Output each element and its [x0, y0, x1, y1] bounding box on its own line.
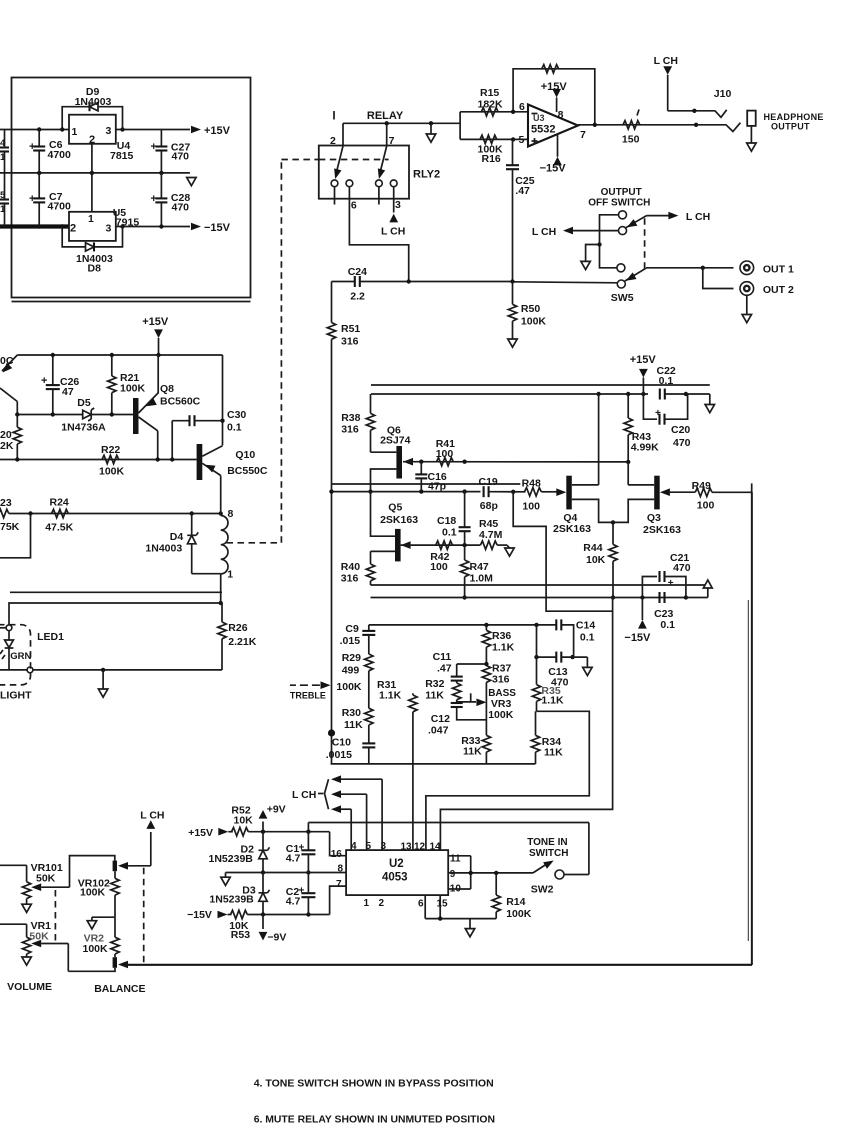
svg-text:C14: C14: [576, 620, 595, 632]
label opamp pin 6: [519, 101, 525, 113]
svg-text:100: 100: [697, 500, 715, 512]
wire +15V rail 2: [17, 353, 222, 357]
resistor R37 316: [482, 662, 511, 697]
capacitor C25 .47: [506, 139, 535, 281]
resistor R40 316: [341, 551, 395, 585]
ground SW5: [581, 242, 602, 269]
svg-text:13: 13: [401, 842, 413, 853]
svg-text:316: 316: [341, 336, 359, 348]
label Q4: [553, 512, 591, 535]
power +15V arrow: [191, 125, 231, 137]
svg-text:0.1: 0.1: [227, 422, 242, 434]
svg-text:+: +: [655, 408, 661, 419]
ground VR102: [87, 917, 115, 929]
wire SW5 bracket: [600, 215, 619, 268]
label Q6: [380, 425, 411, 447]
relay contact 4: [390, 180, 397, 187]
wire R23 branch down: [0, 514, 31, 558]
svg-text:11K: 11K: [544, 747, 563, 759]
label BALANCE: [94, 983, 145, 995]
wire tone input jog: [513, 492, 612, 611]
label OUT 1: [763, 264, 794, 276]
wire -15V rail thick segment: [0, 224, 92, 228]
label J10: [714, 88, 732, 100]
wire pin7 feed: [330, 886, 347, 914]
capacitor C26 47: [41, 355, 79, 415]
wire opamp output: [578, 123, 698, 127]
wire relay contact3 stub: [378, 187, 380, 205]
diode D8 1N4003 loop wire: [62, 227, 122, 247]
resistor R16 100K: [478, 135, 504, 165]
wire rail D: [371, 595, 708, 599]
transistor Q8 emitter: [139, 393, 159, 413]
label U2 bottom pins: [364, 898, 449, 910]
wire right tall riser: [751, 483, 753, 965]
svg-text:SW5: SW5: [611, 292, 634, 304]
svg-text:D8: D8: [88, 263, 102, 275]
wire LED bottom rail: [0, 668, 222, 672]
wire C11 branch top: [457, 663, 487, 665]
svg-text:BALANCE: BALANCE: [94, 983, 145, 995]
resistor R44 10K: [583, 522, 617, 599]
regulator U4 7815: [69, 115, 134, 162]
resistor R50 100K: [508, 282, 546, 340]
capacitor C27 470: [151, 130, 191, 173]
resistor R47 1.0M: [460, 545, 493, 600]
label OUTPUT OFF SWITCH: [588, 187, 650, 209]
svg-text:Q5: Q5: [388, 502, 402, 514]
wire Q6 drain to Q5 drain: [368, 469, 396, 536]
node L CH right arrow: [668, 211, 710, 223]
svg-text:0.1: 0.1: [659, 375, 674, 387]
resistor R34 11K: [531, 711, 563, 764]
capacitor C11 .47: [433, 651, 463, 681]
resistor R33 11K: [461, 735, 490, 764]
label TONE IN SWITCH: [527, 837, 568, 859]
label opamp plus: [532, 138, 538, 144]
svg-text:L CH: L CH: [686, 211, 710, 223]
wire horizontal line lower: [9, 603, 221, 625]
wire feedback loop: [511, 69, 595, 125]
wire right faint vertical: [747, 600, 749, 941]
resistor R51 316: [327, 282, 360, 764]
svg-text:Q10: Q10: [235, 449, 255, 461]
svg-text:1: 1: [72, 126, 78, 138]
svg-text:5: 5: [0, 190, 6, 201]
label relay pin 6: [351, 200, 357, 212]
switch SW5 contact A: [619, 211, 627, 219]
label Q10: [227, 449, 268, 477]
resistor R24 47.5K: [45, 497, 73, 534]
label Q3: [643, 512, 681, 536]
capacitor C21 470: [642, 552, 690, 598]
transistor Q4 gate arrow: [556, 488, 566, 496]
resistor R36 1.1K: [482, 625, 514, 664]
svg-text:R29: R29: [342, 652, 361, 664]
svg-text:SWITCH: SWITCH: [529, 848, 568, 859]
svg-text:D4: D4: [170, 531, 184, 543]
label U3: [533, 113, 545, 123]
svg-text:Q3: Q3: [647, 512, 661, 524]
svg-text:.047: .047: [428, 725, 449, 737]
svg-text:LED1: LED1: [37, 631, 64, 643]
svg-text:SW2: SW2: [531, 884, 554, 896]
power -9V arrow: [259, 915, 287, 944]
dashed gang volume: [54, 890, 56, 942]
svg-text:R36: R36: [492, 630, 511, 642]
svg-text:Q8: Q8: [160, 383, 174, 395]
svg-text:R47: R47: [470, 561, 489, 573]
svg-text:L CH: L CH: [140, 810, 164, 822]
wire SW2 to riser: [564, 823, 589, 875]
wire U2 pin10: [448, 888, 471, 890]
wire relay top: [343, 121, 460, 125]
wire -15V rail: [0, 224, 190, 228]
node LED anode connector: [6, 625, 12, 631]
transistor Q10 collector: [202, 446, 222, 457]
label SW2: [531, 884, 554, 896]
capacitor C9 .015: [340, 623, 376, 654]
svg-text:4. TONE SWITCH SHOWN IN B: 4. TONE SWITCH SHOWN IN BYPASS POSITION: [254, 1078, 494, 1090]
svg-text:R44: R44: [583, 542, 602, 554]
power supply enclosure frame: [12, 78, 251, 302]
svg-text:316: 316: [341, 573, 359, 585]
wire R35 branch vertical: [536, 625, 538, 685]
svg-text:1N4736A: 1N4736A: [61, 422, 106, 434]
resistor R21 100K: [108, 355, 146, 415]
svg-text:8: 8: [338, 864, 344, 875]
potentiometer VR2 100K: [83, 917, 120, 957]
svg-text:TONE IN: TONE IN: [527, 837, 567, 848]
svg-text:OUTPUT: OUTPUT: [601, 187, 642, 198]
wire tone top rail: [369, 623, 557, 627]
resistor R23 475K (cut off): [0, 497, 20, 533]
ground R50: [508, 339, 517, 347]
svg-text:1: 1: [227, 569, 233, 581]
svg-text:15: 15: [437, 899, 449, 910]
label C4: [0, 138, 6, 163]
wire opamp pin5 input: [460, 137, 528, 141]
switch SW5 arm upper: [625, 216, 669, 231]
op-amp U3 5532 triangle: [528, 105, 578, 147]
wire R48 to Q4 gate: [541, 491, 556, 493]
label GRN: [10, 651, 31, 662]
svg-text:2: 2: [70, 223, 76, 235]
svg-text:5: 5: [366, 841, 372, 852]
resistor R31 1.1K: [377, 679, 417, 850]
svg-text:9: 9: [450, 869, 456, 880]
svg-text:3: 3: [381, 841, 387, 852]
svg-text:C20: C20: [671, 424, 690, 436]
svg-text:+: +: [29, 193, 35, 205]
svg-text:2.2: 2.2: [350, 291, 365, 303]
power fet -15V: [624, 598, 651, 645]
resistor R38 316: [341, 394, 375, 452]
resistor feedback: [542, 65, 559, 73]
wire VR2 bottom track: [68, 968, 115, 972]
wire rail C: [371, 584, 707, 586]
svg-text:12: 12: [414, 842, 426, 853]
svg-text:8: 8: [558, 109, 564, 121]
node L CH relay input: [381, 214, 405, 238]
zener D3 1N5239B: [259, 873, 270, 915]
wire +15V feed vertical: [158, 338, 160, 355]
svg-text:499: 499: [342, 665, 360, 677]
wire 0V rail: [0, 171, 190, 175]
svg-text:R48: R48: [522, 478, 541, 490]
svg-text:C24: C24: [348, 266, 367, 278]
label opamp pin 8: [558, 109, 564, 121]
svg-text:23: 23: [0, 497, 12, 509]
switch SW2 contact: [555, 870, 564, 879]
pot VR102 slider top: [113, 861, 117, 872]
label U2 left pins: [331, 849, 344, 890]
svg-text:470: 470: [172, 202, 190, 214]
regulator U5 7915: [69, 207, 139, 241]
transistor Q6 2SJ74 bar: [396, 446, 402, 479]
label TREBLE: [290, 691, 326, 701]
transistor Q6 gate arrow: [403, 458, 413, 466]
svg-text:+15V: +15V: [630, 354, 657, 366]
label opamp pin 7: [580, 129, 586, 141]
pot VR2 slider bottom: [113, 957, 117, 968]
potentiometer VR1 50K: [22, 920, 51, 965]
svg-text:+9V: +9V: [267, 804, 286, 816]
svg-text:+15V: +15V: [188, 827, 213, 839]
svg-text:100K: 100K: [80, 887, 106, 899]
resistor R20 2K (cut off): [0, 415, 22, 460]
capacitor C1 4.7: [286, 832, 316, 873]
svg-text:6: 6: [418, 899, 424, 910]
svg-text:−15V: −15V: [187, 909, 212, 921]
capacitor C28 470: [151, 173, 191, 227]
svg-text:R40: R40: [341, 561, 360, 573]
wire tone bottom rail: [331, 763, 536, 765]
label D2: [209, 844, 255, 866]
svg-text:100K: 100K: [488, 709, 514, 721]
svg-text:2SK163: 2SK163: [643, 524, 681, 536]
capacitor C30 0.1: [172, 409, 246, 460]
svg-text:1: 1: [364, 898, 370, 909]
wire Q10 emitter to relay coil: [220, 476, 222, 514]
svg-text:4053: 4053: [382, 872, 408, 884]
svg-text:7815: 7815: [110, 150, 134, 162]
svg-text:0.1: 0.1: [660, 619, 675, 631]
wire +15V rail: [0, 127, 190, 131]
wire U2 bottom pins: [425, 895, 496, 921]
wire rail B to R48: [513, 491, 525, 493]
switch SW2 arm: [533, 857, 556, 873]
label D8: [76, 253, 113, 275]
wire L CH left arrow: [532, 226, 619, 238]
bass pot VR3 wiper: [457, 693, 487, 706]
svg-text:C10: C10: [332, 737, 351, 749]
resistor R32 11K: [425, 678, 461, 703]
ground LED rail: [98, 670, 107, 697]
wire VR101 input: [0, 864, 27, 866]
ground U2 bottom: [465, 919, 474, 937]
svg-text:4: 4: [351, 841, 357, 852]
wire Q3 drain lead: [628, 484, 654, 486]
ground OUT2: [742, 295, 751, 322]
resistor R26 2.21K: [218, 603, 257, 670]
resistor R35 1.1K: [532, 685, 564, 712]
resistor R14 100K: [492, 873, 532, 920]
wire D5 base rail: [15, 412, 133, 416]
svg-text:J10: J10: [714, 88, 732, 100]
wire U2 pin9 to SW2: [448, 871, 533, 875]
svg-text:OFF SWITCH: OFF SWITCH: [588, 198, 650, 209]
svg-text:2SK163: 2SK163: [553, 523, 591, 535]
node treble junction blob: [328, 729, 335, 736]
label opamp pin 5: [519, 134, 525, 146]
wire Q8 emitter to +15V: [157, 355, 159, 394]
treble pot 100K wiper: [290, 681, 362, 693]
label LED1: [37, 631, 64, 643]
diode D8 symbol: [86, 242, 95, 251]
label 5532: [531, 124, 555, 136]
svg-text:L CH: L CH: [292, 789, 316, 801]
relay contact 1: [331, 180, 338, 187]
svg-text:OUT 1: OUT 1: [763, 264, 794, 276]
wire relay contact1 stub: [334, 187, 336, 205]
svg-text:HEADPHONE: HEADPHONE: [764, 112, 824, 122]
svg-text:100K: 100K: [506, 908, 532, 920]
wiper VR1: [31, 940, 68, 972]
diode D4 1N4003: [187, 514, 221, 574]
svg-text:1.1K: 1.1K: [492, 642, 515, 654]
svg-text:TREBLE: TREBLE: [290, 691, 326, 701]
jack J10 ring contact: [696, 123, 740, 132]
svg-text:R50: R50: [521, 303, 540, 315]
svg-text:0.1: 0.1: [442, 527, 457, 539]
svg-text:14: 14: [430, 842, 442, 853]
power -15V arrow: [191, 222, 231, 234]
wire tone right edge: [440, 598, 612, 851]
svg-text:5532: 5532: [531, 124, 555, 136]
resistor R41 100: [436, 438, 455, 466]
power +9V arrow: [259, 804, 286, 832]
svg-text:4.7: 4.7: [286, 853, 301, 865]
svg-text:L CH: L CH: [532, 226, 556, 238]
ground mid rail: [221, 873, 230, 886]
svg-text:7: 7: [389, 135, 395, 147]
svg-text:100: 100: [436, 448, 454, 460]
wire R22 rail: [0, 457, 197, 461]
svg-text:11K: 11K: [425, 690, 444, 702]
svg-text:11K: 11K: [344, 719, 363, 731]
transistor Q4 2SK163 bar: [566, 476, 572, 510]
jack J10 body: [747, 111, 756, 126]
svg-text:R14: R14: [506, 896, 525, 908]
label RLY2: [413, 169, 440, 181]
capacitor C16 47p: [415, 462, 447, 493]
resistor R45 4.7M: [479, 518, 503, 549]
svg-text:R24: R24: [50, 497, 69, 509]
switch SW5 contact C: [617, 264, 625, 272]
svg-text:68p: 68p: [480, 500, 498, 512]
svg-text:R38: R38: [341, 412, 360, 424]
node LED cathode connector: [27, 667, 33, 673]
resistor R49 100: [692, 480, 715, 512]
dashed SW5 link: [644, 218, 646, 269]
zener D2 1N5239B: [259, 832, 270, 873]
power -15V feed U2: [187, 909, 227, 921]
svg-text:4.99K: 4.99K: [631, 442, 659, 454]
svg-text:OUTPUT: OUTPUT: [771, 122, 810, 132]
svg-text:6. MUTE RELAY SHOWN IN UN: 6. MUTE RELAY SHOWN IN UNMUTED POSITION: [254, 1115, 495, 1126]
label U2 top pins: [351, 841, 441, 853]
capacitor C19 68p: [479, 476, 514, 512]
svg-text:LIGHT: LIGHT: [0, 690, 32, 702]
wire mid rail: [226, 870, 347, 874]
dashed gang balance: [143, 868, 145, 965]
capacitor C10 .0015: [326, 737, 376, 764]
arrow rail C end: [703, 580, 712, 598]
svg-text:+: +: [41, 375, 47, 387]
svg-text:R51: R51: [341, 323, 360, 335]
svg-text:+: +: [151, 141, 157, 153]
label VOLUME: [7, 981, 52, 993]
wire relay pin7 riser: [386, 123, 388, 145]
ground relay wire: [426, 123, 435, 142]
wire Q4 drain lead and riser: [572, 394, 599, 485]
wiper VR101: [31, 856, 115, 891]
svg-text:1: 1: [88, 213, 94, 225]
wire Q4 Q3 source link: [572, 499, 654, 524]
wire relay pin6 to C24 node: [349, 187, 408, 282]
svg-text:470: 470: [673, 562, 691, 574]
svg-text:C18: C18: [437, 515, 456, 527]
svg-text:100K: 100K: [83, 943, 109, 955]
wire LED stub left: [0, 627, 6, 629]
label D9: [75, 86, 112, 108]
relay contact 2: [346, 180, 353, 187]
wire opamp pin6 input: [460, 111, 528, 113]
svg-text:100: 100: [522, 501, 540, 513]
wire VR1 input: [0, 923, 27, 925]
svg-text:−15V: −15V: [204, 222, 231, 234]
wire balance output bus: [128, 492, 752, 965]
jack J10 tip contact: [694, 110, 726, 118]
svg-text:47p: 47p: [428, 481, 446, 493]
transistor Q5 2SK163 bar: [395, 529, 401, 562]
svg-text:6: 6: [519, 101, 525, 113]
label D4: [145, 531, 183, 555]
wire U2 pin5 line: [331, 790, 367, 850]
wire R34 node to U2 pin12: [426, 711, 589, 850]
svg-text:7: 7: [336, 879, 342, 890]
label U2: [382, 858, 408, 884]
svg-text:5: 5: [519, 134, 525, 146]
wire U4 pin2 to U5 pin1: [91, 144, 93, 219]
note 4: [254, 1078, 494, 1090]
svg-text:+: +: [29, 141, 35, 153]
svg-text:+15V: +15V: [204, 125, 231, 137]
wire U2 pin3 line: [331, 775, 382, 850]
wire Q5 source lead: [371, 550, 396, 552]
svg-text:C30: C30: [227, 409, 246, 421]
switch SW5 contact D: [617, 280, 625, 288]
power opamp -15V: [540, 135, 567, 175]
svg-text:U3: U3: [533, 113, 545, 123]
node L CH headphone: [654, 55, 678, 75]
resistor R52 10K: [228, 805, 329, 836]
svg-text:.47: .47: [437, 663, 452, 675]
label D5: [61, 397, 106, 434]
svg-text:R22: R22: [101, 444, 120, 456]
svg-text:4: 4: [0, 138, 6, 149]
